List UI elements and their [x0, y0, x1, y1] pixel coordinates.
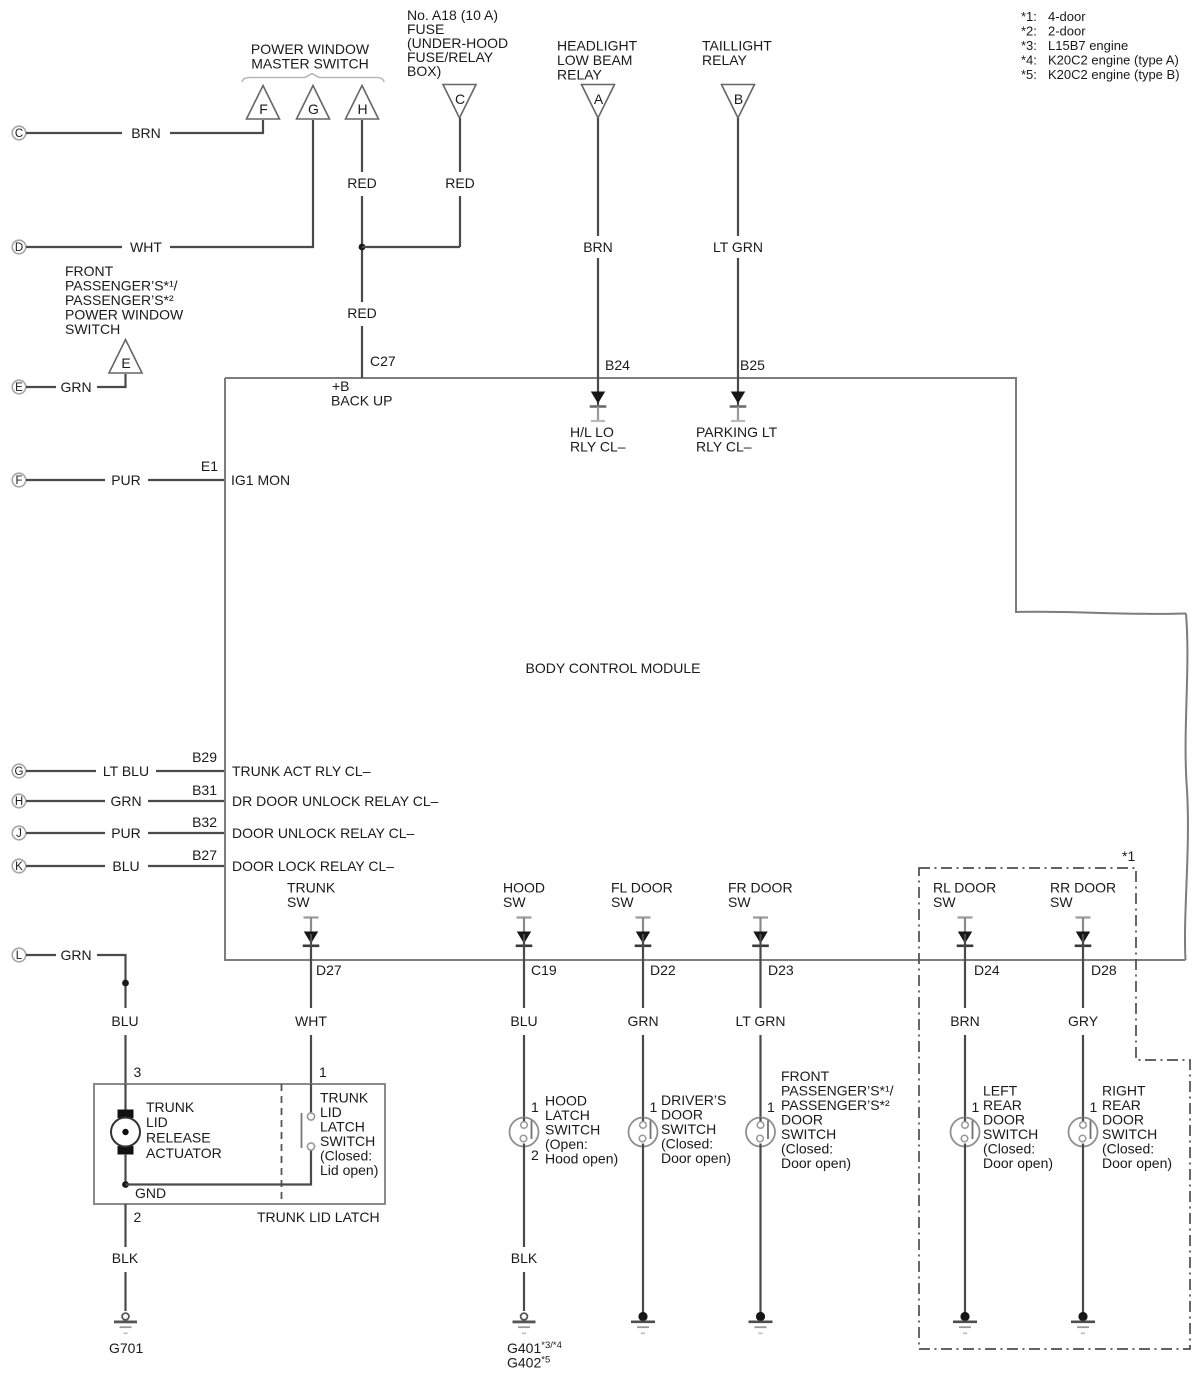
svg-text:D24: D24: [974, 962, 1000, 978]
pin name PARKING LT RLY CL: [696, 424, 778, 455]
connector circle J: [12, 826, 26, 840]
svg-text:B32: B32: [192, 814, 217, 830]
pin name HOOD SW: [503, 880, 545, 911]
svg-text:GND: GND: [135, 1185, 166, 1201]
ground symbol FR door: [749, 1312, 773, 1334]
svg-text:PUR: PUR: [111, 825, 141, 841]
wire BRN from C to F: [26, 120, 263, 133]
wire LT GRN FR door column: [759, 960, 761, 1122]
svg-text:DOOR UNLOCK RELAY CL–: DOOR UNLOCK RELAY CL–: [232, 825, 415, 841]
svg-text:TRUNK: TRUNK: [146, 1099, 195, 1115]
wire LT GRN from relay B: [737, 118, 739, 378]
ground symbol G701: [114, 1313, 137, 1334]
connector A (inverted triangle): [582, 85, 615, 119]
svg-text:SW: SW: [1050, 894, 1073, 910]
svg-text:4-door: 4-door: [1048, 9, 1086, 24]
svg-text:A: A: [594, 91, 604, 107]
wire RL door to ground: [964, 1144, 966, 1314]
junction dot H/C wires: [359, 244, 366, 251]
svg-text:GRN: GRN: [60, 947, 91, 963]
svg-text:K: K: [15, 861, 23, 873]
svg-text:SW: SW: [503, 894, 526, 910]
connector B (inverted triangle): [722, 85, 755, 119]
svg-text:Hood open): Hood open): [545, 1151, 618, 1167]
svg-text:B27: B27: [192, 847, 217, 863]
label TRUNK LID RELEASE ACTUATOR: [146, 1099, 222, 1161]
svg-text:Door open): Door open): [1102, 1155, 1172, 1171]
connector circle L: [12, 948, 26, 962]
svg-text:B25: B25: [740, 357, 765, 373]
ground symbol FL door: [631, 1312, 655, 1334]
svg-text:SW: SW: [933, 894, 956, 910]
svg-text:RLY CL–: RLY CL–: [570, 439, 626, 455]
connector C (inverted triangle): [443, 85, 476, 119]
svg-text:LT GRN: LT GRN: [735, 1013, 785, 1029]
svg-text:1: 1: [531, 1099, 539, 1115]
connector circle E: [12, 380, 26, 394]
trunk lid latch internal divider (dashed): [281, 1084, 283, 1204]
svg-text:2: 2: [531, 1147, 539, 1163]
pin name RL DOOR SW: [933, 880, 996, 911]
wire GRN FL door column: [642, 960, 644, 1122]
svg-text:D23: D23: [768, 962, 794, 978]
svg-text:BLK: BLK: [112, 1250, 139, 1266]
trunk lid release actuator (motor): [111, 1084, 140, 1185]
hood latch switch: [510, 1118, 539, 1147]
svg-text:GRN: GRN: [627, 1013, 658, 1029]
svg-text:H: H: [15, 796, 23, 808]
svg-text:L: L: [16, 950, 23, 962]
svg-text:3: 3: [134, 1064, 142, 1080]
wire WHT from D to G: [26, 120, 313, 247]
svg-text:K20C2 engine (type A): K20C2 engine (type A): [1048, 53, 1179, 68]
wire BLK hood ground: [523, 1144, 525, 1312]
svg-text:DOOR LOCK RELAY CL–: DOOR LOCK RELAY CL–: [232, 858, 394, 874]
svg-text:MASTER SWITCH: MASTER SWITCH: [251, 56, 368, 72]
wire BRN RL door column: [964, 960, 966, 1122]
svg-text:RELAY: RELAY: [702, 52, 748, 68]
svg-text:G: G: [15, 766, 24, 778]
wire GND link to latch switch: [126, 1150, 312, 1185]
svg-text:*4:: *4:: [1021, 53, 1037, 68]
wire GRN from H to BCM B31: [26, 800, 224, 802]
svg-text:C: C: [455, 91, 465, 107]
svg-text:L15B7 engine: L15B7 engine: [1048, 38, 1128, 53]
wire FL door to ground: [642, 1144, 644, 1314]
svg-text:1: 1: [650, 1099, 658, 1115]
svg-text:RED: RED: [445, 175, 475, 191]
svg-text:*3:: *3:: [1021, 38, 1037, 53]
wire PUR from F to BCM E1: [26, 479, 224, 481]
svg-text:SW: SW: [287, 894, 310, 910]
svg-text:SW: SW: [728, 894, 751, 910]
svg-text:BRN: BRN: [950, 1013, 980, 1029]
bracket under master switch label: [242, 74, 384, 83]
svg-text:Door open): Door open): [661, 1150, 731, 1166]
wire BLU hood column: [523, 960, 525, 1122]
svg-text:BLK: BLK: [511, 1250, 538, 1266]
pin name TRUNK SW: [287, 880, 336, 911]
svg-text:SW: SW: [611, 894, 634, 910]
connector circle G: [12, 764, 26, 778]
svg-text:D27: D27: [316, 962, 342, 978]
front passenger's door switch: [746, 1118, 775, 1147]
svg-text:E: E: [15, 382, 23, 394]
connector circle D: [12, 240, 26, 254]
connector circle K: [12, 859, 26, 873]
svg-text:B24: B24: [605, 357, 630, 373]
svg-text:WHT: WHT: [295, 1013, 327, 1029]
svg-text:D: D: [15, 242, 23, 254]
trunk lid latch box: [94, 1084, 385, 1204]
svg-text:IG1 MON: IG1 MON: [231, 472, 290, 488]
svg-text:Lid open): Lid open): [320, 1162, 378, 1178]
wire WHT trunk column: [310, 960, 312, 1084]
left rear door switch: [951, 1118, 980, 1147]
svg-text:RLY CL–: RLY CL–: [696, 439, 752, 455]
connector circle C: [12, 126, 26, 140]
svg-text:SWITCH: SWITCH: [65, 321, 120, 337]
GND junction dot: [122, 1181, 129, 1188]
pin name H/L LO RLY CL: [570, 424, 626, 455]
wire RED from fuse C: [459, 118, 461, 247]
svg-text:K20C2 engine (type B): K20C2 engine (type B): [1048, 67, 1180, 82]
wire GRY RR door column: [1082, 960, 1084, 1122]
label No. A18 fuse: [407, 7, 508, 79]
svg-text:PUR: PUR: [111, 472, 141, 488]
svg-text:*2:: *2:: [1021, 24, 1037, 39]
pin arrow RL DOOR SW: [957, 916, 974, 960]
body control module outline: [225, 378, 1188, 960]
svg-text:B: B: [734, 91, 743, 107]
label RIGHT REAR DOOR SWITCH: [1102, 1083, 1172, 1172]
wire BLK trunk ground: [124, 1204, 126, 1311]
wire RR door to ground: [1082, 1144, 1084, 1314]
wire PUR from J to BCM B32: [26, 832, 224, 834]
trunk lid latch switch: [302, 1084, 315, 1150]
connector E (triangle): [109, 340, 142, 374]
svg-text:B29: B29: [192, 749, 217, 765]
svg-text:TRUNK LID LATCH: TRUNK LID LATCH: [257, 1209, 380, 1225]
pin name FR DOOR SW: [728, 880, 793, 911]
wire RED from H into C27: [361, 120, 363, 378]
wire BLU from K to BCM B27: [26, 865, 224, 867]
svg-text:D22: D22: [650, 962, 676, 978]
svg-text:TRUNK ACT RLY CL–: TRUNK ACT RLY CL–: [232, 763, 371, 779]
label HEADLIGHT LOW BEAM RELAY: [557, 38, 638, 83]
label FRONT PASSENGER'S POWER WINDOW SWITCH: [65, 263, 184, 337]
svg-text:*1: *1: [1122, 848, 1135, 864]
pin name RR DOOR SW: [1050, 880, 1116, 911]
svg-text:LT BLU: LT BLU: [103, 763, 149, 779]
wire GRN from E to triangle E: [26, 374, 126, 387]
svg-text:*5:: *5:: [1021, 67, 1037, 82]
ground symbol RL door: [953, 1312, 977, 1334]
svg-text:BACK UP: BACK UP: [331, 393, 392, 409]
svg-text:WHT: WHT: [130, 239, 162, 255]
pin arrow B24 (H/L LO RLY CL-): [590, 378, 607, 422]
connector G (triangle): [297, 86, 330, 120]
connector F (triangle): [247, 86, 280, 120]
svg-text:C: C: [15, 128, 23, 140]
wire GRN from L down to trunk release: [26, 955, 126, 1084]
pin arrow RR DOOR SW: [1075, 916, 1092, 960]
svg-text:BLU: BLU: [111, 1013, 138, 1029]
connector circle H: [12, 794, 26, 808]
label LEFT REAR DOOR SWITCH: [983, 1083, 1053, 1172]
svg-text:1: 1: [1090, 1099, 1098, 1115]
splice dot on L wire: [122, 980, 129, 987]
svg-text:GRN: GRN: [60, 379, 91, 395]
ground symbol G401/G402: [513, 1313, 536, 1334]
pin arrow B25 (PARKING LT RLY CL-): [730, 378, 747, 422]
svg-text:H: H: [357, 101, 367, 117]
svg-text:BRN: BRN: [131, 125, 161, 141]
svg-text:1: 1: [972, 1099, 980, 1115]
label HOOD LATCH SWITCH: [545, 1093, 618, 1167]
svg-text:BLU: BLU: [112, 858, 139, 874]
pin arrow FL DOOR SW: [635, 916, 652, 960]
svg-text:F: F: [15, 475, 22, 487]
svg-text:F: F: [259, 101, 268, 117]
svg-text:GRN: GRN: [110, 793, 141, 809]
svg-text:C19: C19: [531, 962, 557, 978]
wire LT BLU from G to BCM B29: [26, 770, 224, 772]
svg-text:BOX): BOX): [407, 63, 441, 79]
svg-text:*1:: *1:: [1021, 9, 1037, 24]
svg-text:GRY: GRY: [1068, 1013, 1099, 1029]
label FRONT PASSENGER'S DOOR SWITCH: [781, 1068, 894, 1171]
pin name FL DOOR SW: [611, 880, 673, 911]
svg-text:BRN: BRN: [583, 239, 613, 255]
pin arrow TRUNK SW: [303, 916, 320, 960]
wire FR door to ground: [759, 1144, 761, 1314]
svg-text:RELEASE: RELEASE: [146, 1130, 211, 1146]
svg-text:BODY CONTROL MODULE: BODY CONTROL MODULE: [525, 660, 700, 676]
label TRUNK LID LATCH SWITCH: [320, 1090, 378, 1179]
svg-text:DR DOOR UNLOCK RELAY CL–: DR DOOR UNLOCK RELAY CL–: [232, 793, 439, 809]
svg-text:Door open): Door open): [781, 1155, 851, 1171]
connector circle F: [12, 473, 26, 487]
svg-text:ACTUATOR: ACTUATOR: [146, 1145, 222, 1161]
wire BRN from relay A: [597, 118, 599, 378]
pin name +B BACK UP: [331, 378, 392, 409]
svg-text:E1: E1: [201, 458, 218, 474]
label DRIVER'S DOOR SWITCH: [661, 1092, 731, 1166]
svg-text:Door open): Door open): [983, 1155, 1053, 1171]
svg-text:RELAY: RELAY: [557, 67, 603, 83]
ground symbol RR door: [1071, 1312, 1095, 1334]
svg-text:LT GRN: LT GRN: [713, 239, 763, 255]
svg-text:B31: B31: [192, 782, 217, 798]
4-door option box (dash-dot): [919, 868, 1190, 1349]
legend notes: [1021, 9, 1180, 82]
pin arrow FR DOOR SW: [752, 916, 769, 960]
svg-text:J: J: [16, 828, 22, 840]
svg-text:C27: C27: [370, 353, 396, 369]
driver's door switch: [629, 1118, 658, 1147]
svg-text:G701: G701: [109, 1340, 143, 1356]
svg-text:1: 1: [767, 1099, 775, 1115]
svg-text:BLU: BLU: [510, 1013, 537, 1029]
svg-text:E: E: [121, 355, 130, 371]
right rear door switch: [1069, 1118, 1098, 1147]
wire from junction to fuse C: [362, 246, 460, 248]
svg-text:RED: RED: [347, 305, 377, 321]
connector H (triangle): [346, 86, 379, 120]
label TAILLIGHT RELAY: [702, 38, 772, 69]
svg-text:LID: LID: [146, 1114, 168, 1130]
pin arrow HOOD SW: [516, 916, 533, 960]
svg-text:2-door: 2-door: [1048, 24, 1086, 39]
svg-text:D28: D28: [1091, 962, 1117, 978]
svg-text:2: 2: [134, 1209, 142, 1225]
svg-text:RED: RED: [347, 175, 377, 191]
svg-text:1: 1: [319, 1064, 327, 1080]
svg-text:G: G: [308, 101, 319, 117]
label POWER WINDOW MASTER SWITCH: [251, 41, 370, 72]
